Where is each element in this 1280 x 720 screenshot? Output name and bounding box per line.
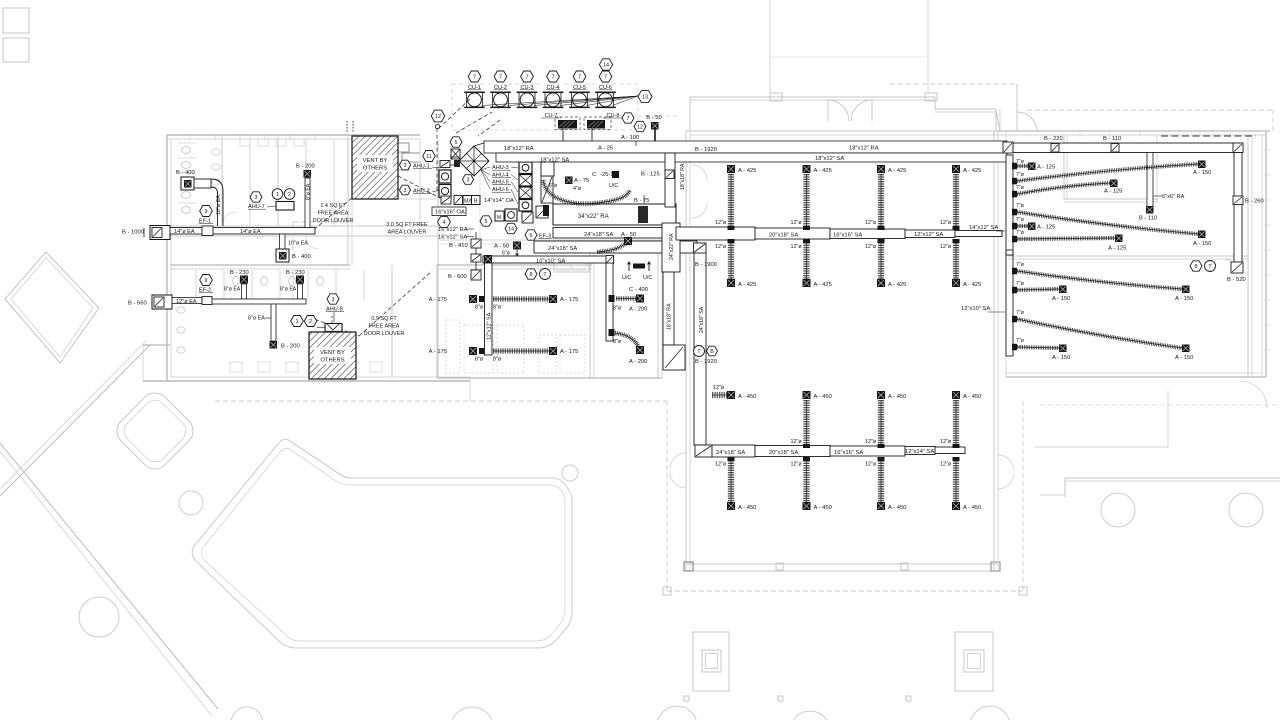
fan EF-1 hex 9 [199, 206, 213, 225]
svg-text:5: 5 [455, 140, 458, 146]
patio dashed canopy outline [215, 84, 1273, 591]
svg-text:B - 230: B - 230 [286, 270, 305, 276]
north annex walls [690, 0, 1000, 131]
callout hex 8 T right wing [1190, 261, 1216, 272]
duct 6x6 RA vertical [1139, 153, 1185, 222]
svg-text:A - 450: A - 450 [963, 505, 981, 511]
svg-text:12"ø: 12"ø [865, 462, 877, 468]
duct 8 dia EA vertical to B-200 [248, 304, 300, 350]
svg-text:12"ø: 12"ø [713, 385, 725, 391]
svg-text:8"ø EA: 8"ø EA [280, 287, 297, 293]
svg-text:U/C: U/C [609, 183, 618, 189]
svg-text:B - 125: B - 125 [641, 172, 660, 178]
svg-text:7"ø: 7"ø [1016, 262, 1025, 268]
callout hex 7 above CU-6 [599, 71, 612, 82]
svg-text:A - 25: A - 25 [598, 146, 613, 152]
svg-text:1: 1 [276, 192, 279, 198]
svg-text:12"ø: 12"ø [940, 439, 952, 445]
svg-text:A - 200: A - 200 [629, 307, 647, 313]
exhaust B-110 top [1103, 136, 1121, 152]
duct 14x12 SA vertical west right wing [1006, 155, 1013, 356]
svg-text:12"ø: 12"ø [865, 439, 877, 445]
AHU-8 with callouts [291, 294, 344, 332]
svg-text:7: 7 [578, 74, 581, 80]
svg-text:A - 125: A - 125 [1104, 189, 1122, 195]
svg-text:16"x16" OA: 16"x16" OA [435, 210, 465, 216]
svg-text:B - 660: B - 660 [128, 301, 147, 307]
svg-text:U/C: U/C [643, 275, 652, 281]
duct 14 dia EA main [170, 226, 315, 236]
svg-text:3.0 SQ FT FREE: 3.0 SQ FT FREE [386, 222, 428, 228]
vertical EA duct from CU7-8 [541, 162, 554, 176]
flex run A - 150 row 2 [1012, 161, 1211, 185]
svg-text:12"ø: 12"ø [940, 244, 952, 250]
svg-text:3: 3 [404, 188, 407, 194]
duct 18x12 RA main [484, 141, 1007, 153]
duct 10x10 SA [483, 256, 613, 265]
svg-text:A - 425: A - 425 [738, 168, 756, 174]
diffuser A-200 lower with curved flex [609, 329, 648, 365]
svg-text:1: 1 [296, 319, 299, 325]
svg-text:8: 8 [1195, 264, 1198, 270]
svg-text:8"ø: 8"ø [493, 305, 502, 311]
svg-text:VENT BY: VENT BY [363, 158, 388, 164]
elbow hatch at 10x10 SA east end [606, 256, 614, 264]
svg-text:18"x12" RA: 18"x12" RA [504, 146, 534, 152]
svg-text:B - 50: B - 50 [646, 115, 661, 121]
svg-text:7"ø: 7"ø [1016, 310, 1025, 316]
svg-text:12: 12 [637, 124, 643, 130]
riser elbow bottom [663, 345, 685, 370]
svg-text:FREE AREA: FREE AREA [369, 324, 400, 330]
svg-text:B - 110: B - 110 [1139, 216, 1157, 222]
svg-text:12"ø: 12"ø [715, 462, 727, 468]
svg-text:OTHERS: OTHERS [363, 166, 387, 172]
riser line vertical [475, 232, 477, 270]
svg-text:9: 9 [205, 278, 208, 284]
svg-text:7: 7 [604, 74, 607, 80]
svg-text:12"x14" SA: 12"x14" SA [905, 449, 934, 455]
duct riser 24x22 RA segment [662, 223, 680, 272]
svg-text:16"x16" SA: 16"x16" SA [833, 233, 862, 239]
exhaust B-50 [646, 115, 661, 141]
svg-text:OTHERS: OTHERS [320, 358, 344, 364]
svg-text:B - 220: B - 220 [1044, 136, 1063, 142]
svg-text:B - 200: B - 200 [281, 344, 300, 350]
svg-text:B - 400: B - 400 [176, 170, 195, 176]
svg-text:12"ø: 12"ø [791, 462, 803, 468]
left wing equipment room gray gear [396, 143, 420, 170]
svg-text:14"ø EA: 14"ø EA [240, 229, 261, 235]
svg-text:B - 600: B - 600 [448, 274, 467, 280]
svg-text:A - 50: A - 50 [494, 244, 509, 250]
callout hex 4 [438, 216, 451, 227]
svg-text:B - 1920: B - 1920 [695, 147, 717, 153]
site boundary diagonal lines bottom-left [0, 341, 218, 716]
svg-text:4: 4 [443, 220, 446, 226]
callout hex 12 right [634, 121, 646, 131]
svg-text:7"ø: 7"ø [1016, 230, 1025, 236]
diffuser row A-175 y351 [429, 347, 579, 363]
svg-text:B - 520: B - 520 [1227, 277, 1246, 283]
svg-text:13: 13 [642, 94, 648, 100]
svg-text:A - 200: A - 200 [629, 359, 647, 365]
svg-text:3: 3 [467, 177, 470, 183]
svg-text:A - 425: A - 425 [963, 282, 981, 288]
svg-text:A - 150: A - 150 [1052, 355, 1070, 361]
diffuser column A-450 x881 [865, 391, 906, 511]
duct 12 dia EA [172, 297, 237, 306]
svg-text:A - 175: A - 175 [429, 349, 447, 355]
svg-text:3: 3 [255, 195, 258, 201]
svg-text:8"ø EA: 8"ø EA [248, 316, 265, 322]
label B-125 with riser [641, 170, 674, 179]
flex arc at A-50 [597, 237, 632, 252]
svg-text:12"x10" SA: 12"x10" SA [961, 306, 990, 312]
callout hex 7 near CU-8 [622, 113, 634, 123]
svg-text:B - 110: B - 110 [1103, 136, 1121, 142]
label 18x12 RA left [504, 146, 534, 152]
svg-text:8"ø: 8"ø [493, 357, 502, 363]
patio planters and columns [663, 587, 1027, 701]
label 16x16 OA boxed [432, 207, 466, 216]
svg-text:8"ø: 8"ø [613, 306, 622, 312]
text 1.4 sq ft door louver [313, 203, 354, 224]
mixing boxes MX B [454, 196, 480, 205]
duct branch vertical right of lounge [606, 263, 613, 341]
svg-text:A - 150: A - 150 [1052, 296, 1070, 302]
svg-text:12"x12" SA: 12"x12" SA [487, 312, 493, 340]
condensing unit CU-4 [543, 85, 564, 108]
spa rounded square [111, 387, 199, 475]
diffuser A-75 [565, 177, 589, 185]
svg-text:C: C [592, 172, 596, 178]
svg-text:8"ø EA: 8"ø EA [224, 287, 241, 293]
riser B-520 [1227, 262, 1246, 283]
diffuser column A-425 x806 [791, 165, 832, 288]
labels on lower duct run [716, 449, 934, 456]
svg-text:24"x18" SA: 24"x18" SA [716, 450, 745, 456]
callout hex 7 above CU-5 [573, 71, 586, 82]
svg-text:14: 14 [508, 226, 514, 232]
svg-text:7"ø: 7"ø [1016, 338, 1025, 344]
exhaust B-200 top [296, 164, 315, 228]
diffuser row A-175 y299 [429, 295, 579, 311]
svg-text:0.9 SQ FT: 0.9 SQ FT [371, 316, 397, 322]
label A-100 [621, 135, 639, 146]
svg-text:B - 1000: B - 1000 [122, 230, 144, 236]
diffuser A-200 upper [609, 295, 648, 313]
label B-1920 in duct [695, 147, 717, 153]
svg-text:18"x12" RA: 18"x12" RA [849, 146, 879, 152]
labels 16x12 RA SA [438, 227, 474, 241]
duct riser 24x18 SA vertical [694, 243, 706, 445]
svg-text:10"ø EA: 10"ø EA [288, 241, 308, 247]
diffuser column A-450 x731 [712, 385, 756, 511]
svg-text:6"ø: 6"ø [549, 183, 558, 189]
svg-text:12"ø: 12"ø [715, 220, 727, 226]
svg-text:B - 400: B - 400 [292, 254, 311, 260]
diffuser column A-450 x956 [940, 391, 981, 511]
dark dashed leader lines [309, 99, 500, 336]
svg-text:34"x22" RA: 34"x22" RA [578, 214, 609, 220]
condensing unit CU-3 [517, 85, 538, 108]
riser hatch B-125 overlay [665, 170, 674, 179]
exhaust B-400 mid with 10 dia [276, 234, 311, 262]
svg-text:A - 175: A - 175 [560, 349, 578, 355]
AHU unit boxes column 2 [519, 162, 532, 211]
svg-text:18"x18" RA: 18"x18" RA [680, 163, 686, 190]
svg-text:8: 8 [530, 272, 533, 278]
svg-text:8"ø: 8"ø [613, 339, 622, 345]
svg-text:6: 6 [530, 233, 533, 239]
svg-text:A - 150: A - 150 [1193, 170, 1211, 176]
svg-text:3: 3 [332, 297, 335, 303]
label B-1920 riser [695, 359, 717, 365]
svg-text:3: 3 [404, 163, 407, 169]
svg-text:20"x18" SA: 20"x18" SA [769, 450, 798, 456]
svg-text:DOOR LOUVER: DOOR LOUVER [313, 218, 354, 224]
svg-text:16"x12" SA: 16"x12" SA [438, 235, 467, 241]
svg-text:12: 12 [435, 114, 441, 120]
svg-text:A - 450: A - 450 [963, 394, 981, 400]
svg-text:C - 400: C - 400 [629, 287, 648, 293]
svg-text:7"ø: 7"ø [1016, 217, 1025, 223]
hall west and south walls [684, 131, 1006, 571]
svg-text:9: 9 [205, 209, 208, 215]
svg-text:7"ø: 7"ø [1016, 185, 1025, 191]
svg-text:14"ø EA: 14"ø EA [174, 229, 195, 235]
thermostat C-25-1 [592, 171, 619, 189]
svg-text:6"x6" RA: 6"x6" RA [1162, 194, 1185, 200]
svg-text:A - 425: A - 425 [738, 282, 756, 288]
svg-text:A - 150: A - 150 [1193, 241, 1211, 247]
duct 12x12 SA vertical [485, 263, 493, 355]
svg-text:11: 11 [426, 154, 432, 160]
riser hatch transition [694, 243, 707, 253]
AHU unit boxes column 1 [439, 149, 460, 204]
riser stack B-600 [448, 270, 481, 280]
svg-text:12"ø: 12"ø [791, 244, 803, 250]
duct 24x18 SA upper [553, 228, 676, 239]
lounge counter and sinks [554, 263, 589, 272]
condensing unit CU-7 [541, 113, 577, 141]
svg-text:16"x16" SA: 16"x16" SA [834, 450, 863, 456]
svg-text:12"ø: 12"ø [791, 220, 803, 226]
duct 24x18 SA lower run [534, 241, 697, 253]
svg-text:B - 410: B - 410 [449, 243, 468, 249]
duct riser B-260 right edge [1233, 153, 1264, 265]
svg-text:18"x18" RA: 18"x18" RA [667, 303, 673, 330]
svg-text:A - 125: A - 125 [1037, 225, 1055, 231]
flex run A - 150 row 10 [1012, 338, 1070, 361]
svg-text:A - 175: A - 175 [560, 297, 578, 303]
flex run A - 125 row 1 [1012, 159, 1055, 171]
svg-text:DOOR LOUVER: DOOR LOUVER [364, 331, 405, 337]
exhaust outlet B-1000 [122, 226, 170, 240]
left wing interior walls [171, 137, 438, 377]
svg-text:A - 425: A - 425 [814, 168, 832, 174]
svg-text:12"ø: 12"ø [791, 439, 803, 445]
svg-text:VENT BY: VENT BY [320, 350, 345, 356]
label A-25 [598, 146, 613, 152]
svg-text:A - 75: A - 75 [574, 178, 589, 184]
svg-text:-25-1: -25-1 [600, 172, 614, 178]
duct run upper hall 20x18-16x16-12x12 [676, 227, 1002, 240]
flex arc upper with 6 and 4 dia [543, 180, 630, 204]
left wing plumbing fixtures [177, 139, 438, 372]
svg-text:7"ø: 7"ø [1016, 172, 1025, 178]
svg-text:B: B [710, 349, 714, 355]
duct along right wing top [1003, 142, 1243, 153]
svg-text:A - 150: A - 150 [1175, 296, 1193, 302]
svg-text:U/C: U/C [622, 275, 631, 281]
svg-text:7"ø: 7"ø [1016, 203, 1025, 209]
svg-text:A - 100: A - 100 [621, 135, 639, 141]
duct riser RA upper segment [665, 153, 686, 207]
condensing unit CU-1 [464, 85, 485, 108]
svg-text:B - 260: B - 260 [1245, 199, 1264, 205]
svg-text:7"ø: 7"ø [1016, 281, 1025, 287]
svg-text:12"ø EA: 12"ø EA [176, 299, 197, 305]
duct 34x22 RA [553, 204, 676, 225]
diffuser column A-425 x956 [940, 165, 981, 288]
svg-text:1.4 SQ FT: 1.4 SQ FT [320, 203, 346, 209]
flex run A - 125 row 6 [1012, 230, 1126, 252]
callout T B at riser [694, 346, 718, 357]
svg-text:7: 7 [627, 116, 630, 122]
labels on upper duct run [769, 232, 943, 239]
svg-text:7: 7 [499, 74, 502, 80]
svg-text:MX: MX [464, 199, 472, 205]
svg-text:24"x18" SA: 24"x18" SA [699, 306, 705, 333]
svg-text:12"x12" SA: 12"x12" SA [914, 232, 943, 238]
AHU supply plenum diagonal [450, 143, 489, 184]
svg-text:12"ø: 12"ø [715, 244, 727, 250]
hall door arcs [670, 165, 1014, 489]
diffuser column A-450 x806 [791, 391, 832, 511]
flex run A - 150 row 7 [1012, 262, 1193, 302]
callout hex 11 [423, 151, 436, 162]
label 12x10 SA [961, 306, 1005, 312]
flex run A - 125 row 3 [1012, 180, 1122, 198]
fan EF-2 hex 9 [199, 275, 213, 294]
svg-text:18"x12" SA: 18"x12" SA [540, 158, 569, 164]
svg-text:7: 7 [552, 74, 555, 80]
svg-text:8"ø EA: 8"ø EA [306, 183, 312, 200]
flex run A - 150 row 8 [1012, 281, 1070, 302]
svg-text:A - 150: A - 150 [1175, 355, 1193, 361]
AHU-7 with callouts [248, 189, 295, 210]
wall window ticks [190, 129, 1270, 350]
duct 18x12 SA main [496, 153, 1007, 162]
svg-text:8"ø: 8"ø [475, 305, 484, 311]
label B-75 [634, 195, 649, 204]
svg-text:A - 125: A - 125 [1037, 165, 1055, 171]
flex run A - 150 row 9 [1012, 310, 1193, 361]
svg-text:12"ø: 12"ø [940, 462, 952, 468]
pool outline [192, 439, 572, 648]
text 3.0 sq ft louver [386, 222, 428, 236]
svg-text:14: 14 [603, 62, 609, 68]
callout hex 7 above CU-3 [521, 71, 534, 82]
right wing walls [996, 84, 1270, 377]
site corner structures top-left [3, 8, 29, 62]
exhaust B-230 pair [224, 270, 249, 299]
svg-text:A - 425: A - 425 [814, 282, 832, 288]
condensing unit CU-2 [490, 85, 511, 108]
flex run A - 150 row 4 [1012, 203, 1211, 247]
tree circles [79, 465, 1263, 720]
svg-text:A - 450: A - 450 [888, 394, 906, 400]
svg-text:12"ø: 12"ø [940, 220, 952, 226]
dark dashed roofline right wing [1161, 135, 1256, 137]
svg-text:24"x18" SA: 24"x18" SA [584, 232, 613, 238]
svg-text:16"x12" RA: 16"x12" RA [438, 227, 468, 233]
svg-text:4"ø: 4"ø [573, 186, 582, 192]
svg-text:A - 425: A - 425 [888, 282, 906, 288]
svg-text:2: 2 [309, 319, 312, 325]
svg-text:B - 1920: B - 1920 [695, 359, 717, 365]
svg-text:A - 450: A - 450 [888, 505, 906, 511]
svg-text:5: 5 [485, 219, 488, 225]
label 18x12 RA right [849, 146, 879, 152]
fan EF-3 hex 6 [525, 230, 552, 240]
center section lounge walls [437, 240, 662, 401]
diffuser column A-425 x731 [715, 165, 756, 288]
svg-text:B - 75: B - 75 [634, 198, 649, 204]
dashed pad outline around CU units [452, 84, 680, 130]
exhaust outlet B-660 [128, 295, 172, 309]
svg-text:7: 7 [473, 74, 476, 80]
label 14x14 OA [484, 198, 514, 204]
exhaust B-220 [1044, 136, 1063, 152]
AHU-1 label and hex 3 [399, 160, 440, 170]
diffuser column A-425 x881 [865, 165, 906, 288]
callout hex 7 above CU-4 [547, 71, 560, 82]
svg-text:24"x18" SA: 24"x18" SA [548, 246, 577, 252]
callout hex 13 with leaders [482, 90, 653, 105]
label 18x12 SA right [815, 156, 844, 162]
exhaust B-400 northwest [176, 170, 223, 226]
flex run A - 125 row 5 [1012, 217, 1055, 231]
duct riser 18x18 RA segment [663, 272, 674, 345]
svg-text:A - 175: A - 175 [429, 297, 447, 303]
svg-text:A - 450: A - 450 [814, 505, 832, 511]
label B-1900 [695, 262, 717, 268]
svg-text:A - 450: A - 450 [738, 505, 756, 511]
callout hex 14 lower [505, 223, 517, 233]
undercut C-400 [622, 262, 652, 293]
terrace east of hall [1035, 381, 1280, 497]
condensing unit CU-8 [587, 113, 623, 141]
condensing unit CU-5 [569, 85, 590, 108]
mech area gray walls [420, 139, 686, 244]
riser stack mid [471, 254, 492, 263]
svg-text:7: 7 [526, 74, 529, 80]
site diamond planter [5, 252, 99, 363]
callout hex 5 upper [450, 137, 462, 147]
callout hex 7 above CU-1 [468, 71, 481, 82]
svg-text:B - 1900: B - 1900 [695, 262, 717, 268]
svg-text:B - 200: B - 200 [296, 164, 315, 170]
svg-text:14"x14" OA: 14"x14" OA [484, 198, 514, 204]
svg-text:AREA LOUVER: AREA LOUVER [388, 230, 427, 236]
label 14x12 SA right [969, 225, 1005, 231]
svg-text:14"x12" SA: 14"x12" SA [969, 225, 998, 231]
AHU-2 label and hex 3 [399, 185, 440, 195]
louver hatch box VENT BY OTHERS north [352, 136, 398, 199]
